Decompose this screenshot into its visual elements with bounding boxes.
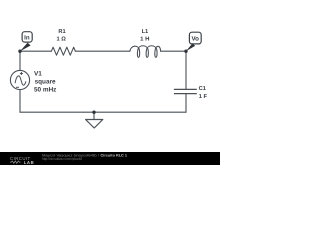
V1 waveform glyph bbox=[15, 76, 26, 85]
capacitor C1 bottom plate bbox=[174, 93, 197, 95]
node junction dot ground bbox=[92, 111, 95, 114]
capacitor C1 top plate bbox=[174, 88, 197, 90]
svg-text:C1: C1 bbox=[199, 86, 206, 92]
svg-text:square: square bbox=[35, 78, 56, 85]
V1 minus terminal mark bbox=[16, 86, 19, 88]
wire top rail right: inductor to node bbox=[161, 50, 186, 52]
wire left vertical: node to V1 top bbox=[19, 51, 21, 70]
node In label box bbox=[22, 32, 32, 42]
svg-text:1 F: 1 F bbox=[199, 94, 208, 100]
ground stem wire bbox=[93, 112, 95, 119]
svg-text:1 Ω: 1 Ω bbox=[57, 36, 67, 42]
wire right vertical: C1 bottom to bottom rail bbox=[185, 94, 187, 113]
node Vo label box bbox=[189, 32, 201, 44]
wire right vertical: node to C1 top bbox=[185, 51, 187, 89]
node Vo flag pointer bbox=[186, 43, 195, 51]
CircuitLab logo resistor zigzag glyph bbox=[10, 161, 21, 163]
svg-text:http://circuitlab.com/c/pvw48: http://circuitlab.com/c/pvw48 bbox=[42, 157, 82, 161]
V1 plus terminal mark bbox=[20, 72, 23, 75]
svg-text:Vo: Vo bbox=[191, 36, 199, 43]
svg-text:In: In bbox=[24, 35, 30, 42]
voltage source V1 bbox=[10, 70, 29, 89]
svg-text:Circuito RLC 1: Circuito RLC 1 bbox=[101, 154, 128, 158]
node junction dot In bbox=[18, 50, 21, 53]
svg-text:1 H: 1 H bbox=[140, 36, 149, 42]
wire top rail left: node to resistor bbox=[20, 50, 51, 52]
wire left vertical: V1 bottom to bottom rail bbox=[19, 90, 21, 113]
wire bottom rail bbox=[20, 111, 186, 113]
node junction dot Vo bbox=[184, 50, 187, 53]
resistor R1 bbox=[51, 47, 75, 55]
svg-text:V1: V1 bbox=[34, 70, 42, 77]
ground symbol triangle bbox=[86, 120, 103, 129]
wire top rail middle: resistor to inductor bbox=[75, 50, 130, 52]
svg-text:50 mHz: 50 mHz bbox=[34, 87, 56, 94]
V1 circle body bbox=[10, 70, 29, 89]
svg-text:L1: L1 bbox=[142, 29, 149, 35]
watermark bar bbox=[0, 152, 220, 165]
node In flag pointer bbox=[20, 43, 31, 52]
inductor L1 bbox=[130, 46, 161, 58]
svg-text:LAB: LAB bbox=[24, 160, 35, 165]
svg-text:R1: R1 bbox=[58, 29, 65, 35]
